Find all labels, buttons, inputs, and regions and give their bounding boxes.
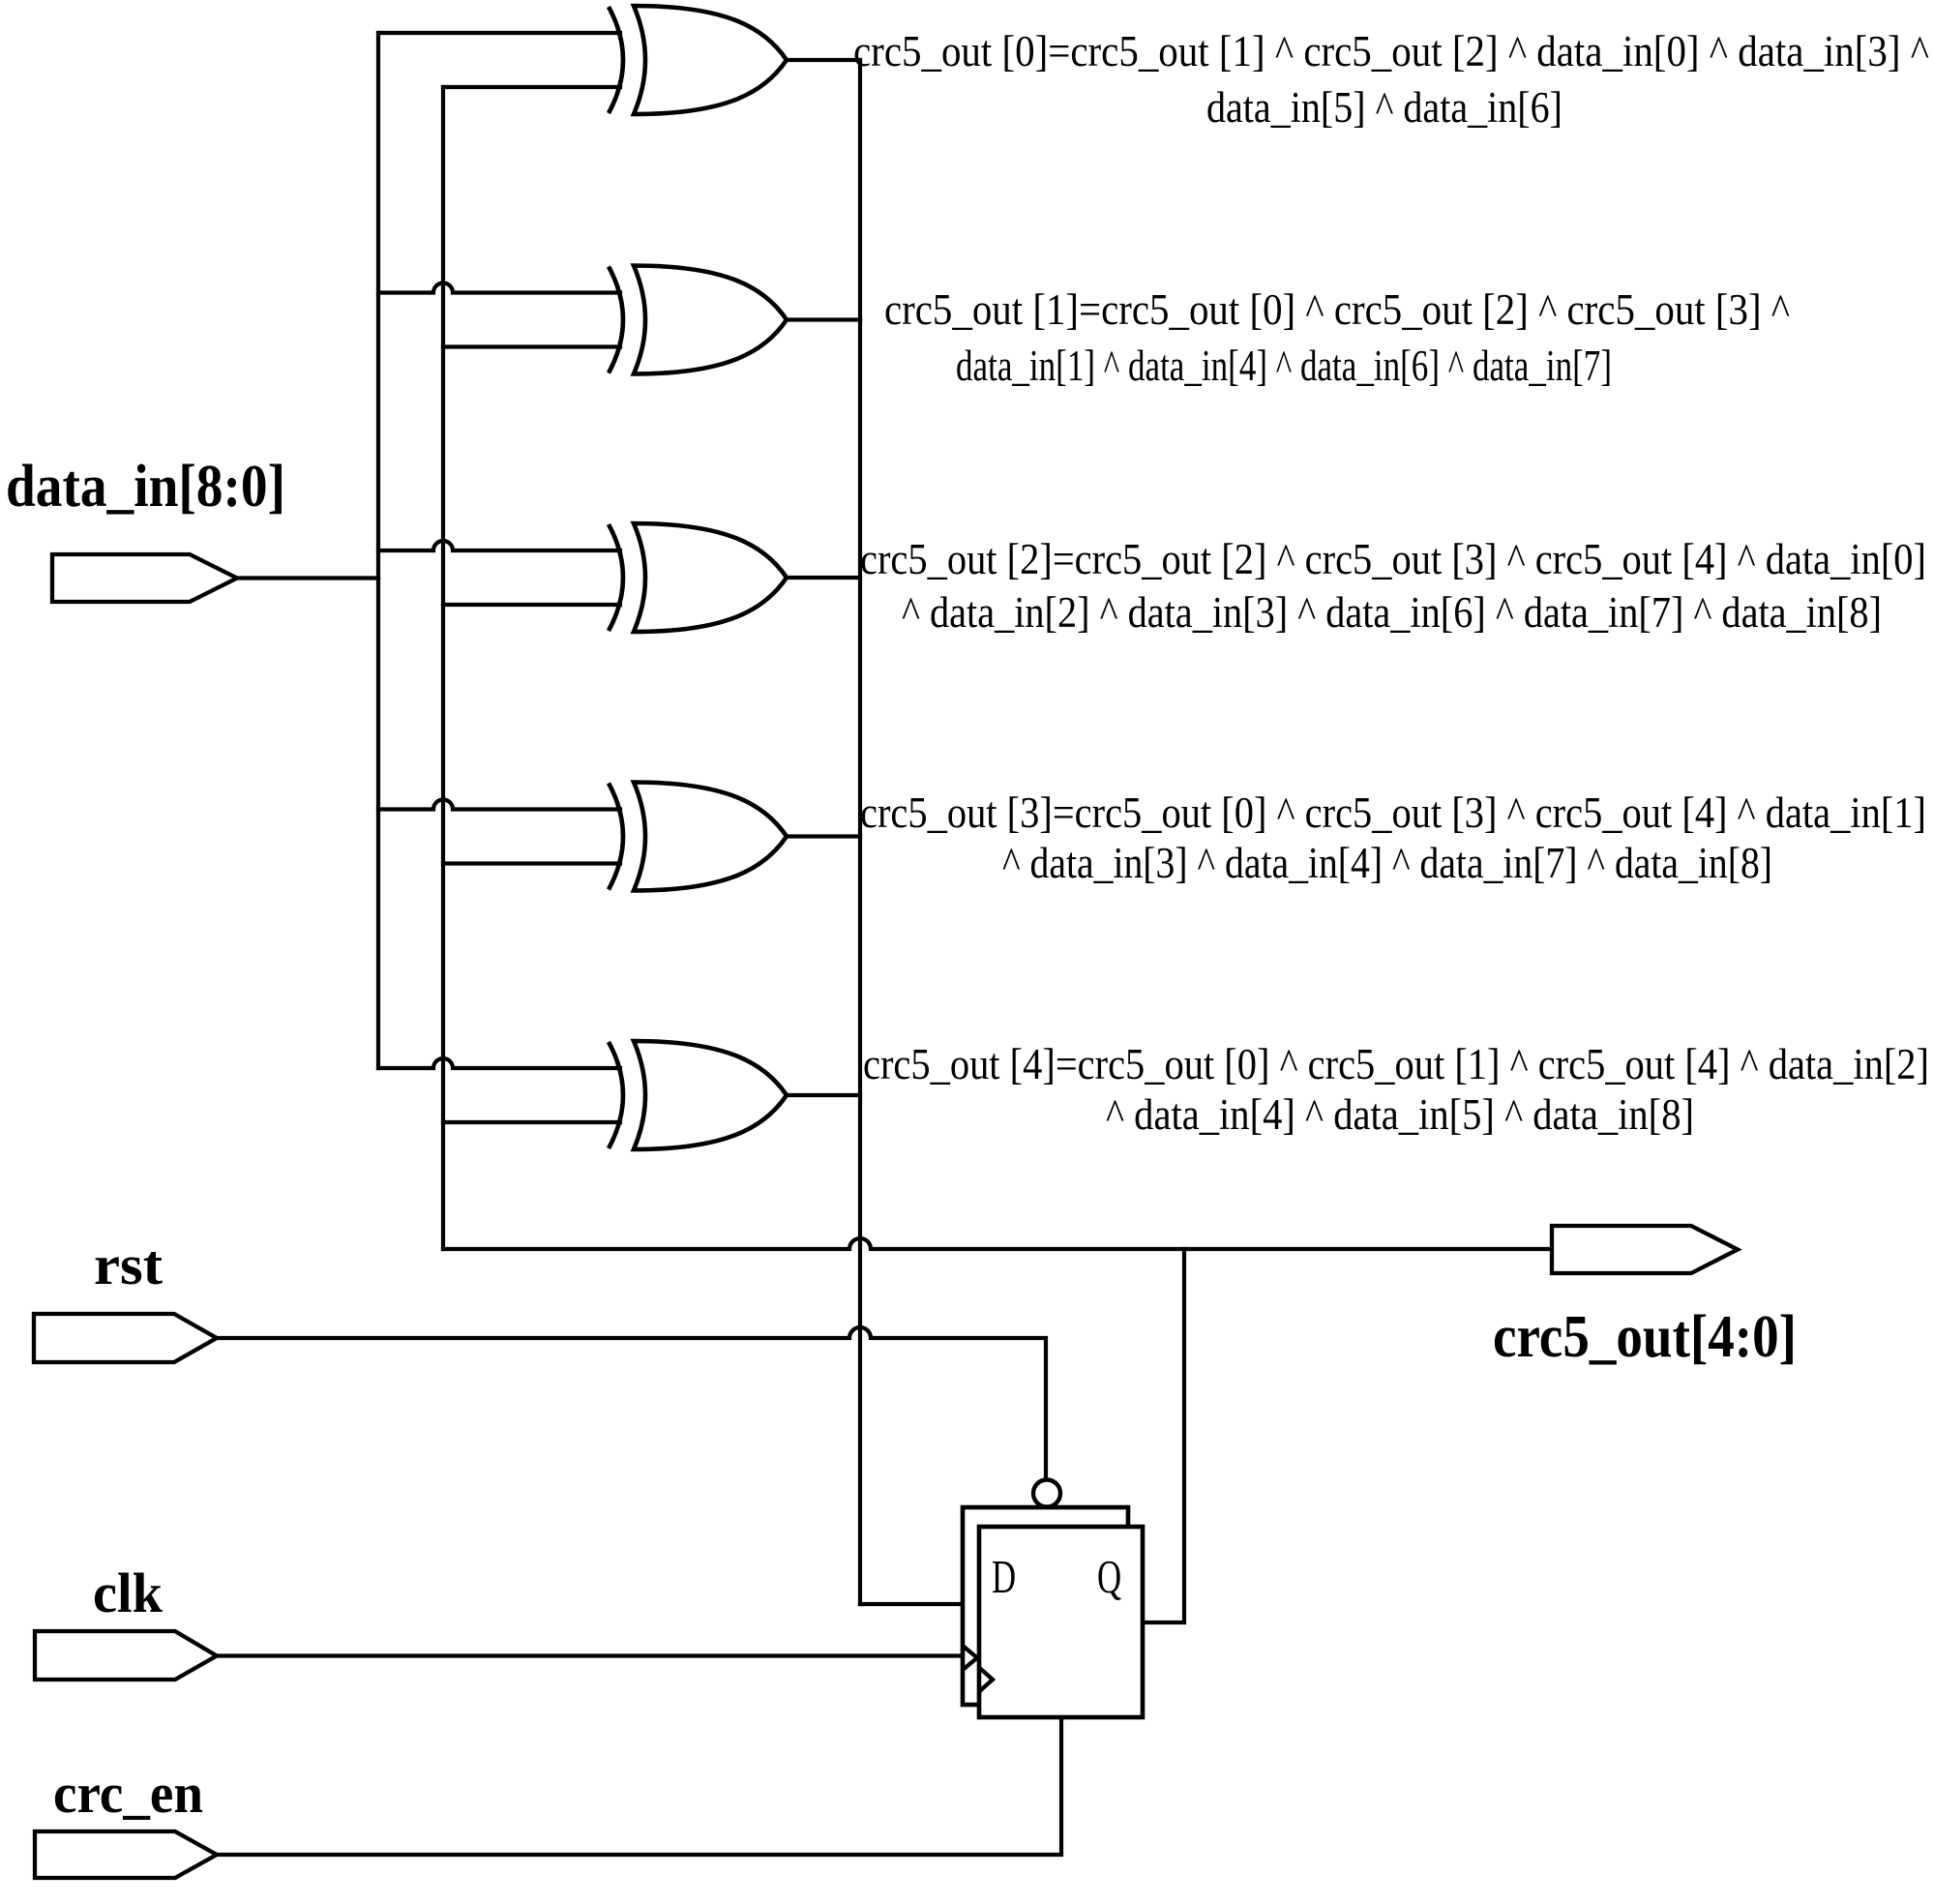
pin label D (992, 1551, 1016, 1603)
wire: gate2 top input from line1 (hop over line2) (378, 283, 620, 293)
wire: crc_en from port up to flip-flop bottom (217, 1717, 1061, 1855)
D flip-flop U1: clock triangle on front rectangle (979, 1668, 993, 1692)
wire: gate5 bottom input from line2 (443, 1120, 620, 1124)
svg-text:rst: rst (94, 1234, 164, 1296)
wire: Q output feedback up to crc5_out net (1143, 1249, 1184, 1622)
wire: right vertical bus (XOR outputs to D input) (858, 60, 862, 1604)
wire: D input from right bus to flip-flop (860, 1602, 963, 1606)
XOR gate G2 (crc5_out[1]) (609, 266, 787, 374)
wire: rst from port to flip-flop bubble (hop over right bus) (217, 1327, 1046, 1479)
svg-text:^ data_in[2] ^ data_in[3] ^ da: ^ data_in[2] ^ data_in[3] ^ data_in[6] ^… (902, 588, 1882, 637)
wire: vertical bus line2 (crc5_out feedback distribution) (441, 87, 445, 1249)
svg-text:^ data_in[4] ^ data_in[5] ^ da: ^ data_in[4] ^ data_in[5] ^ data_in[8] (1106, 1090, 1694, 1139)
wire: data_in port to line1 (237, 576, 378, 580)
wire: gate1 bottom input from line2 (443, 85, 620, 89)
XOR gate G3 (crc5_out[2]) (609, 523, 787, 632)
svg-text:crc5_out [1]=crc5_out [0] ^ cr: crc5_out [1]=crc5_out [0] ^ crc5_out [2]… (884, 285, 1790, 334)
XOR gate G5 (crc5_out[4]) (609, 1041, 787, 1149)
wire: gate4 bottom input from line2 (443, 861, 620, 865)
input port crc_en (35, 1831, 217, 1878)
XOR gate G4 (crc5_out[3]) (609, 783, 787, 891)
D flip-flop U1: front register rectangle (979, 1527, 1143, 1717)
svg-text:Q: Q (1097, 1551, 1121, 1603)
pin label Q (1097, 1551, 1121, 1603)
wire: gate2 output to right bus (787, 317, 860, 321)
svg-text:^ data_in[3] ^ data_in[4] ^ da: ^ data_in[3] ^ data_in[4] ^ data_in[7] ^… (1002, 839, 1772, 887)
input port rst (34, 1314, 217, 1362)
wire: gate1 output to right bus (787, 58, 860, 62)
svg-text:crc5_out [3]=crc5_out [0] ^ cr: crc5_out [3]=crc5_out [0] ^ crc5_out [3]… (860, 788, 1926, 837)
wire: gate1 top input from line1 (378, 31, 620, 35)
wire: gate2 bottom input from line2 (443, 344, 620, 348)
input port data_in[8:0] (52, 554, 237, 602)
svg-text:crc5_out [0]=crc5_out [1] ^ cr: crc5_out [0]=crc5_out [1] ^ crc5_out [2]… (853, 27, 1929, 75)
svg-text:data_in[8:0]: data_in[8:0] (6, 454, 285, 520)
svg-text:data_in[5] ^ data_in[6]: data_in[5] ^ data_in[6] (1206, 83, 1562, 132)
svg-text:crc5_out [4]=crc5_out [0] ^ cr: crc5_out [4]=crc5_out [0] ^ crc5_out [1]… (863, 1040, 1929, 1088)
wire: gate5 top input from line1 (hop over line2) (378, 1058, 620, 1068)
wire: gate5 output to right bus (787, 1093, 860, 1097)
wire: vertical bus line1 (data_in distribution) (376, 33, 380, 1068)
wire: gate3 top input from line1 (hop over line2) (378, 541, 620, 550)
wire: gate4 top input from line1 (hop over line2) (378, 800, 620, 810)
D flip-flop U1: reset bubble (1033, 1480, 1060, 1507)
wire: crc5_out net from line2 to output port (hop over right bus) (443, 1238, 1552, 1249)
output port crc5_out[4:0] (1552, 1226, 1738, 1273)
svg-text:data_in[1] ^ data_in[4] ^ data: data_in[1] ^ data_in[4] ^ data_in[6] ^ d… (956, 342, 1612, 390)
D flip-flop U1: clock triangle on back rectangle (963, 1646, 977, 1670)
svg-text:clk: clk (93, 1562, 164, 1624)
svg-text:crc_en: crc_en (53, 1762, 203, 1825)
svg-text:crc5_out [2]=crc5_out [2] ^ cr: crc5_out [2]=crc5_out [2] ^ crc5_out [3]… (860, 535, 1926, 583)
wire: gate3 bottom input from line2 (443, 603, 620, 607)
svg-text:D: D (992, 1551, 1016, 1603)
D flip-flop U1: back register rectangle (963, 1507, 1128, 1705)
wire: clk from port to flip-flop clock pin (217, 1653, 963, 1657)
svg-text:crc5_out[4:0]: crc5_out[4:0] (1493, 1304, 1797, 1370)
XOR gate G1 (crc5_out[0]) (609, 6, 787, 114)
wire: gate3 output to right bus (787, 576, 860, 580)
wire: gate4 output to right bus (787, 834, 860, 838)
input port clk (35, 1631, 217, 1680)
